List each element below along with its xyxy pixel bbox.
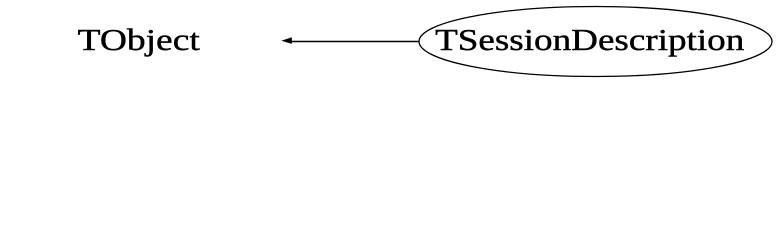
svg-text:TSessionDescription: TSessionDescription [435,24,744,58]
node TSessionDescription ellipse [419,7,772,77]
arrowhead pointing left [281,37,292,44]
svg-text:TObject: TObject [78,23,201,57]
wire (arrow shaft from TSessionDescription to TObject) [289,41,419,43]
